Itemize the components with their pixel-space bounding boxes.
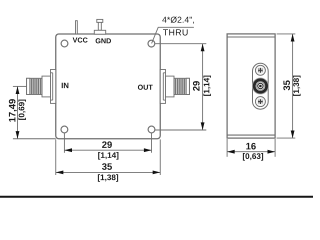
text 16 (246, 143, 256, 150)
VCC pin (76, 21, 78, 34)
arrow up 17,49 (16, 86, 20, 94)
dimension 17,49 extension line (connector centerline) (13, 85, 27, 87)
extension line from top-right hole (to vertical 29 dim) (155, 43, 206, 45)
extension line side view bottom-right corner (274, 139, 276, 157)
coax middle ring (256, 82, 264, 90)
arrow left 16 (227, 150, 235, 154)
extension line from body bottom-right corner (159, 139, 161, 175)
extension line side view top right (277, 33, 296, 35)
IN label (62, 83, 69, 88)
dimension 17,49 extension line (body bottom, extended left) (13, 138, 56, 140)
SMA flange (stadium shape) (253, 63, 269, 109)
text 29 (vertical) (193, 81, 200, 91)
arrow left 29 (64, 148, 72, 152)
mounting hole top-right (148, 40, 155, 47)
arrow up vertical 29 (201, 44, 205, 52)
dimension 17,49 line (17, 86, 19, 138)
GND label (96, 38, 111, 43)
side view outline (227, 34, 275, 138)
flange screw bottom (255, 97, 265, 107)
mounting hole bottom-left (61, 126, 68, 133)
coax connector shading ring (253, 78, 269, 94)
extension line from bottom-right hole (to vertical 29 dim) (155, 129, 206, 131)
arrow down side 35 (291, 131, 295, 139)
extension line from bottom-right hole (151, 133, 153, 153)
extension line side view bottom right (277, 137, 296, 139)
arrow left 35 (56, 171, 64, 175)
dimension 29 line (bottom) (64, 149, 151, 151)
arrow up side 35 (291, 34, 295, 42)
extension line from bottom-left hole (63, 133, 65, 153)
text [1,14] (vertical) (203, 76, 211, 96)
OUT SMA connector (right side) (160, 70, 189, 104)
coax inner ring (258, 83, 263, 88)
side view lid line top (227, 36, 275, 38)
arrow down vertical 29 (201, 122, 205, 130)
VCC label (73, 37, 88, 42)
text [1,14] (bottom) (98, 152, 118, 160)
OUT connector threads (176, 79, 185, 94)
dimension 35 line (bottom) (56, 171, 161, 173)
hole note text line 1 (162, 17, 194, 24)
IN connector threads (31, 79, 40, 94)
arrow right 16 (268, 150, 276, 154)
GND feed-through pin (94, 19, 105, 34)
coax connector outer ring (254, 80, 266, 92)
text [0,69] (rotated) (18, 100, 26, 120)
extension line side view bottom-left corner (226, 139, 228, 157)
arrow down 17,49 (16, 131, 20, 139)
dimension 35 vertical line (side view) (292, 34, 294, 138)
mounting hole bottom-right (148, 126, 155, 133)
text 17,49 (rotated) (9, 99, 17, 122)
hole note text line 2 (163, 29, 188, 35)
dimension 16 line (227, 151, 275, 153)
OUT label (138, 85, 153, 90)
text 29 (bottom) (102, 141, 112, 148)
side view lid line bottom (227, 134, 275, 136)
arrow right 29 (144, 148, 152, 152)
flange screw top (255, 65, 265, 75)
extension line from body bottom-left corner (55, 139, 57, 175)
text [1,38] (side, rotated) (293, 76, 301, 96)
dimension 29 vertical line (202, 44, 204, 130)
drawing frame bottom border (0, 196, 313, 198)
mounting hole top-left (61, 40, 68, 47)
IN SMA connector (left side) (27, 70, 56, 104)
text [0,63] (243, 153, 263, 161)
text [1,38] (bottom) (98, 174, 118, 182)
text 35 (bottom) (102, 163, 112, 170)
text 35 (side, rotated) (283, 80, 290, 90)
coax center pin (259, 85, 262, 88)
module body (front view) (56, 34, 161, 139)
arrow right 35 (153, 171, 161, 175)
hole note leader (152, 27, 194, 43)
